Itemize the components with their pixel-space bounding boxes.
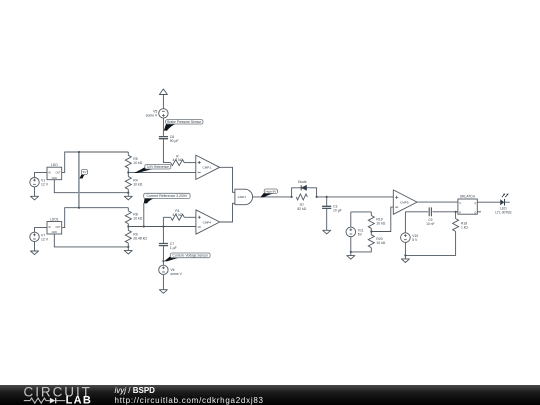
svg-text:LDO: LDO bbox=[51, 163, 58, 167]
svg-text:GND: GND bbox=[52, 231, 58, 234]
svg-text:5V: 5V bbox=[83, 170, 87, 174]
svg-text:CMP4: CMP4 bbox=[203, 220, 212, 224]
svg-text:10 kΩ: 10 kΩ bbox=[376, 222, 385, 226]
svg-text:4.7 kΩ: 4.7 kΩ bbox=[173, 158, 183, 162]
svg-text:AND1: AND1 bbox=[238, 195, 247, 199]
svg-text:IN: IN bbox=[48, 172, 51, 175]
svg-text:High-5V: High-5V bbox=[265, 189, 276, 193]
svg-text:90 µF: 90 µF bbox=[170, 139, 179, 143]
svg-text:OUT: OUT bbox=[55, 226, 61, 229]
svg-text:LTL-307EE: LTL-307EE bbox=[495, 210, 512, 214]
svg-text:Q: Q bbox=[474, 202, 476, 205]
svg-text:Current Reference 3.209V: Current Reference 3.209V bbox=[146, 194, 188, 198]
svg-text:12 V: 12 V bbox=[41, 183, 49, 187]
svg-text:CMP5: CMP5 bbox=[400, 200, 409, 204]
svg-text:10 kΩ: 10 kΩ bbox=[133, 183, 142, 187]
svg-text:R: R bbox=[459, 211, 461, 214]
svg-text:10 µF: 10 µF bbox=[333, 209, 342, 213]
svg-text:26.48 kΩ: 26.48 kΩ bbox=[133, 236, 147, 240]
svg-text:1 kΩ: 1 kΩ bbox=[461, 226, 468, 230]
svg-text:10 kΩ: 10 kΩ bbox=[133, 217, 142, 221]
svg-text:Diode: Diode bbox=[298, 180, 307, 184]
svg-text:1 µF: 1 µF bbox=[170, 246, 177, 250]
svg-text:5 V: 5 V bbox=[412, 238, 418, 242]
svg-text:3.0V Reference: 3.0V Reference bbox=[147, 165, 169, 169]
svg-text:LAB: LAB bbox=[66, 395, 91, 405]
svg-text:LDO1: LDO1 bbox=[50, 217, 59, 221]
svg-text:4.7 kΩ: 4.7 kΩ bbox=[173, 213, 183, 217]
svg-text:Current- Voltage Sensor: Current- Voltage Sensor bbox=[173, 254, 209, 258]
svg-text:OUT: OUT bbox=[55, 172, 61, 175]
svg-text:10 kΩ: 10 kΩ bbox=[133, 161, 142, 165]
svg-text:ivyj / BSPD: ivyj / BSPD bbox=[115, 386, 156, 395]
svg-text:12 V: 12 V bbox=[41, 237, 49, 241]
svg-text:IN: IN bbox=[48, 226, 51, 229]
svg-text:6V: 6V bbox=[358, 232, 363, 236]
svg-text:10 kΩ: 10 kΩ bbox=[376, 241, 385, 245]
svg-text:CMP1: CMP1 bbox=[202, 166, 211, 170]
svg-text:10 nF: 10 nF bbox=[426, 222, 434, 226]
svg-text:82 kΩ: 82 kΩ bbox=[297, 207, 306, 211]
svg-text:Q: Q bbox=[474, 211, 476, 214]
svg-text:some V: some V bbox=[170, 272, 182, 276]
svg-text:SRLATCH: SRLATCH bbox=[460, 194, 476, 198]
svg-text:some V: some V bbox=[146, 113, 158, 117]
svg-text:Brake Pressure Sensor: Brake Pressure Sensor bbox=[167, 120, 202, 124]
svg-text:GND: GND bbox=[52, 177, 58, 180]
svg-text:http://circuitlab.com/cdkrhga2: http://circuitlab.com/cdkrhga2dxj83 bbox=[115, 396, 264, 405]
